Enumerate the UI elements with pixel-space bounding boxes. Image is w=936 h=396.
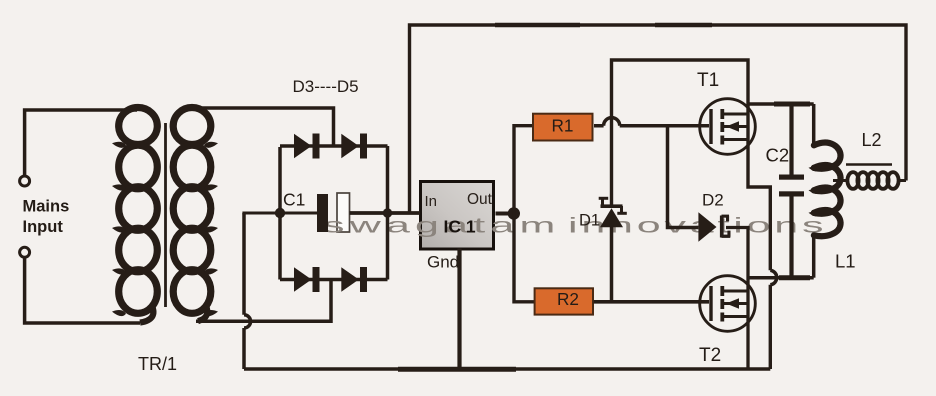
wire IC Gnd down bbox=[457, 249, 461, 370]
terminal top (mains) bbox=[20, 176, 30, 186]
transformer primary cusps bbox=[112, 142, 126, 316]
zener diode D2 bbox=[698, 212, 730, 241]
bridge bottom rail bbox=[280, 278, 388, 282]
svg-text:Mains: Mains bbox=[23, 198, 70, 216]
svg-text:T1: T1 bbox=[697, 70, 719, 91]
inductor L2 core bar bbox=[846, 163, 892, 166]
wire R1 to T1 gate with hop over D1 line bbox=[594, 118, 709, 126]
resistor R2 bbox=[535, 288, 593, 314]
svg-text:Gnd: Gnd bbox=[427, 253, 459, 272]
inductor L1 lead top bbox=[812, 104, 816, 146]
svg-text:T2: T2 bbox=[699, 345, 721, 366]
IC IC1 regulator box bbox=[421, 182, 494, 250]
svg-text:C1: C1 bbox=[283, 190, 305, 210]
transformer TR/1 secondary winding bbox=[173, 108, 211, 322]
zener diode D1 bbox=[599, 197, 627, 228]
node bridge DC+ junction bbox=[383, 208, 392, 217]
wire tank top T1 drain to L1 bbox=[748, 102, 814, 106]
wire hop arc bbox=[244, 315, 251, 328]
bridge top rail bbox=[280, 144, 388, 148]
svg-text:Out: Out bbox=[467, 191, 493, 208]
MOSFET T2 bbox=[700, 276, 756, 332]
wire L1 tap to L2 bbox=[833, 179, 849, 182]
wire secondary bottom lead to bridge AC2 bbox=[196, 281, 331, 321]
wire top rail thick segment 2 bbox=[655, 23, 712, 28]
bridge rectifier left vertical bbox=[278, 147, 282, 280]
node Out junction bbox=[508, 207, 520, 219]
svg-text:swagatam: swagatam bbox=[323, 213, 561, 237]
wire R2 to T2 gate bbox=[594, 300, 709, 304]
bridge right vertical bbox=[386, 146, 390, 280]
diode D3 (bridge top-left) bbox=[294, 134, 320, 159]
transformer core bbox=[164, 123, 167, 307]
wire T1 source jog down bbox=[748, 114, 770, 369]
wire secondary top lead to bridge AC1 bbox=[196, 108, 334, 147]
capacitor C2 plates bbox=[779, 175, 804, 197]
wire ground rail bbox=[244, 367, 770, 370]
capacitor C2 lead bottom bbox=[789, 196, 793, 278]
MOSFET T1 bbox=[700, 99, 756, 155]
diode D4 (bridge top-right) bbox=[341, 134, 367, 159]
terminal bottom (mains) bbox=[20, 247, 30, 257]
svg-text:R1: R1 bbox=[552, 115, 574, 135]
wire ground rail thick segment bbox=[398, 367, 516, 372]
diode bridge bottom-right bbox=[341, 267, 367, 292]
transformer TR/1 primary winding bbox=[119, 108, 158, 323]
wire gate feed vertical R1 bbox=[514, 126, 533, 214]
svg-text:C2: C2 bbox=[766, 145, 790, 166]
inductor L2 winding bbox=[847, 172, 898, 189]
svg-text:D2: D2 bbox=[702, 191, 724, 210]
diode bridge bottom-left bbox=[294, 267, 320, 292]
svg-text:In: In bbox=[425, 193, 438, 210]
svg-text:L2: L2 bbox=[862, 130, 882, 150]
wire mains top lead bbox=[25, 110, 137, 175]
node C1/DC- junction bbox=[275, 208, 285, 218]
transformer secondary cusps bbox=[204, 142, 218, 316]
capacitor C2 lead top bbox=[789, 104, 793, 175]
svg-text:TR/1: TR/1 bbox=[138, 354, 177, 374]
svg-text:D1: D1 bbox=[579, 212, 600, 230]
capacitor C1 negative plate (outline) bbox=[337, 193, 350, 232]
inductor L1 cusps bbox=[809, 166, 821, 216]
watermark innovations bbox=[568, 213, 827, 237]
inductor L1 winding bbox=[814, 143, 841, 237]
wire tank bottom thick segment bbox=[779, 275, 810, 280]
wire outer supply loop top bbox=[410, 25, 907, 212]
wire hop T1 source over tank bottom bbox=[770, 270, 776, 285]
wire mid rail left (DC- to C1) bbox=[242, 212, 317, 215]
svg-text:Input: Input bbox=[23, 218, 64, 236]
wire tank top thick segment bbox=[774, 102, 810, 107]
wire D1 anode down to T2 gate wire bbox=[610, 226, 614, 302]
wire gate feed vertical R2 bbox=[514, 214, 535, 302]
resistor R1 bbox=[533, 114, 593, 141]
wire D2 cathode to T2 drain bbox=[726, 228, 748, 370]
wire DC minus rail with hop over secondary lead bbox=[242, 213, 246, 369]
watermark swagatam bbox=[323, 213, 561, 237]
wire L2 to right leg bbox=[899, 179, 907, 182]
wire D2 anode feed from T1 gate wire bbox=[668, 126, 699, 228]
svg-text:L1: L1 bbox=[835, 251, 856, 272]
inductor L1 lead bottom bbox=[812, 235, 816, 278]
wire IC Out to node bbox=[496, 212, 515, 216]
wire D1 line top to inner loop / T1 drain bbox=[612, 60, 749, 206]
wire mid rail right (C1 to IC In) bbox=[350, 211, 421, 215]
wire tank bottom T2 drain to L1 bbox=[748, 276, 814, 280]
svg-text:R2: R2 bbox=[557, 289, 579, 309]
wire top rail thick segment 1 bbox=[495, 23, 580, 28]
capacitor C1 positive plate bbox=[317, 194, 328, 232]
wire mains bottom lead bbox=[25, 258, 140, 324]
svg-text:IC 1: IC 1 bbox=[444, 217, 476, 237]
svg-text:D3----D5: D3----D5 bbox=[293, 77, 359, 96]
